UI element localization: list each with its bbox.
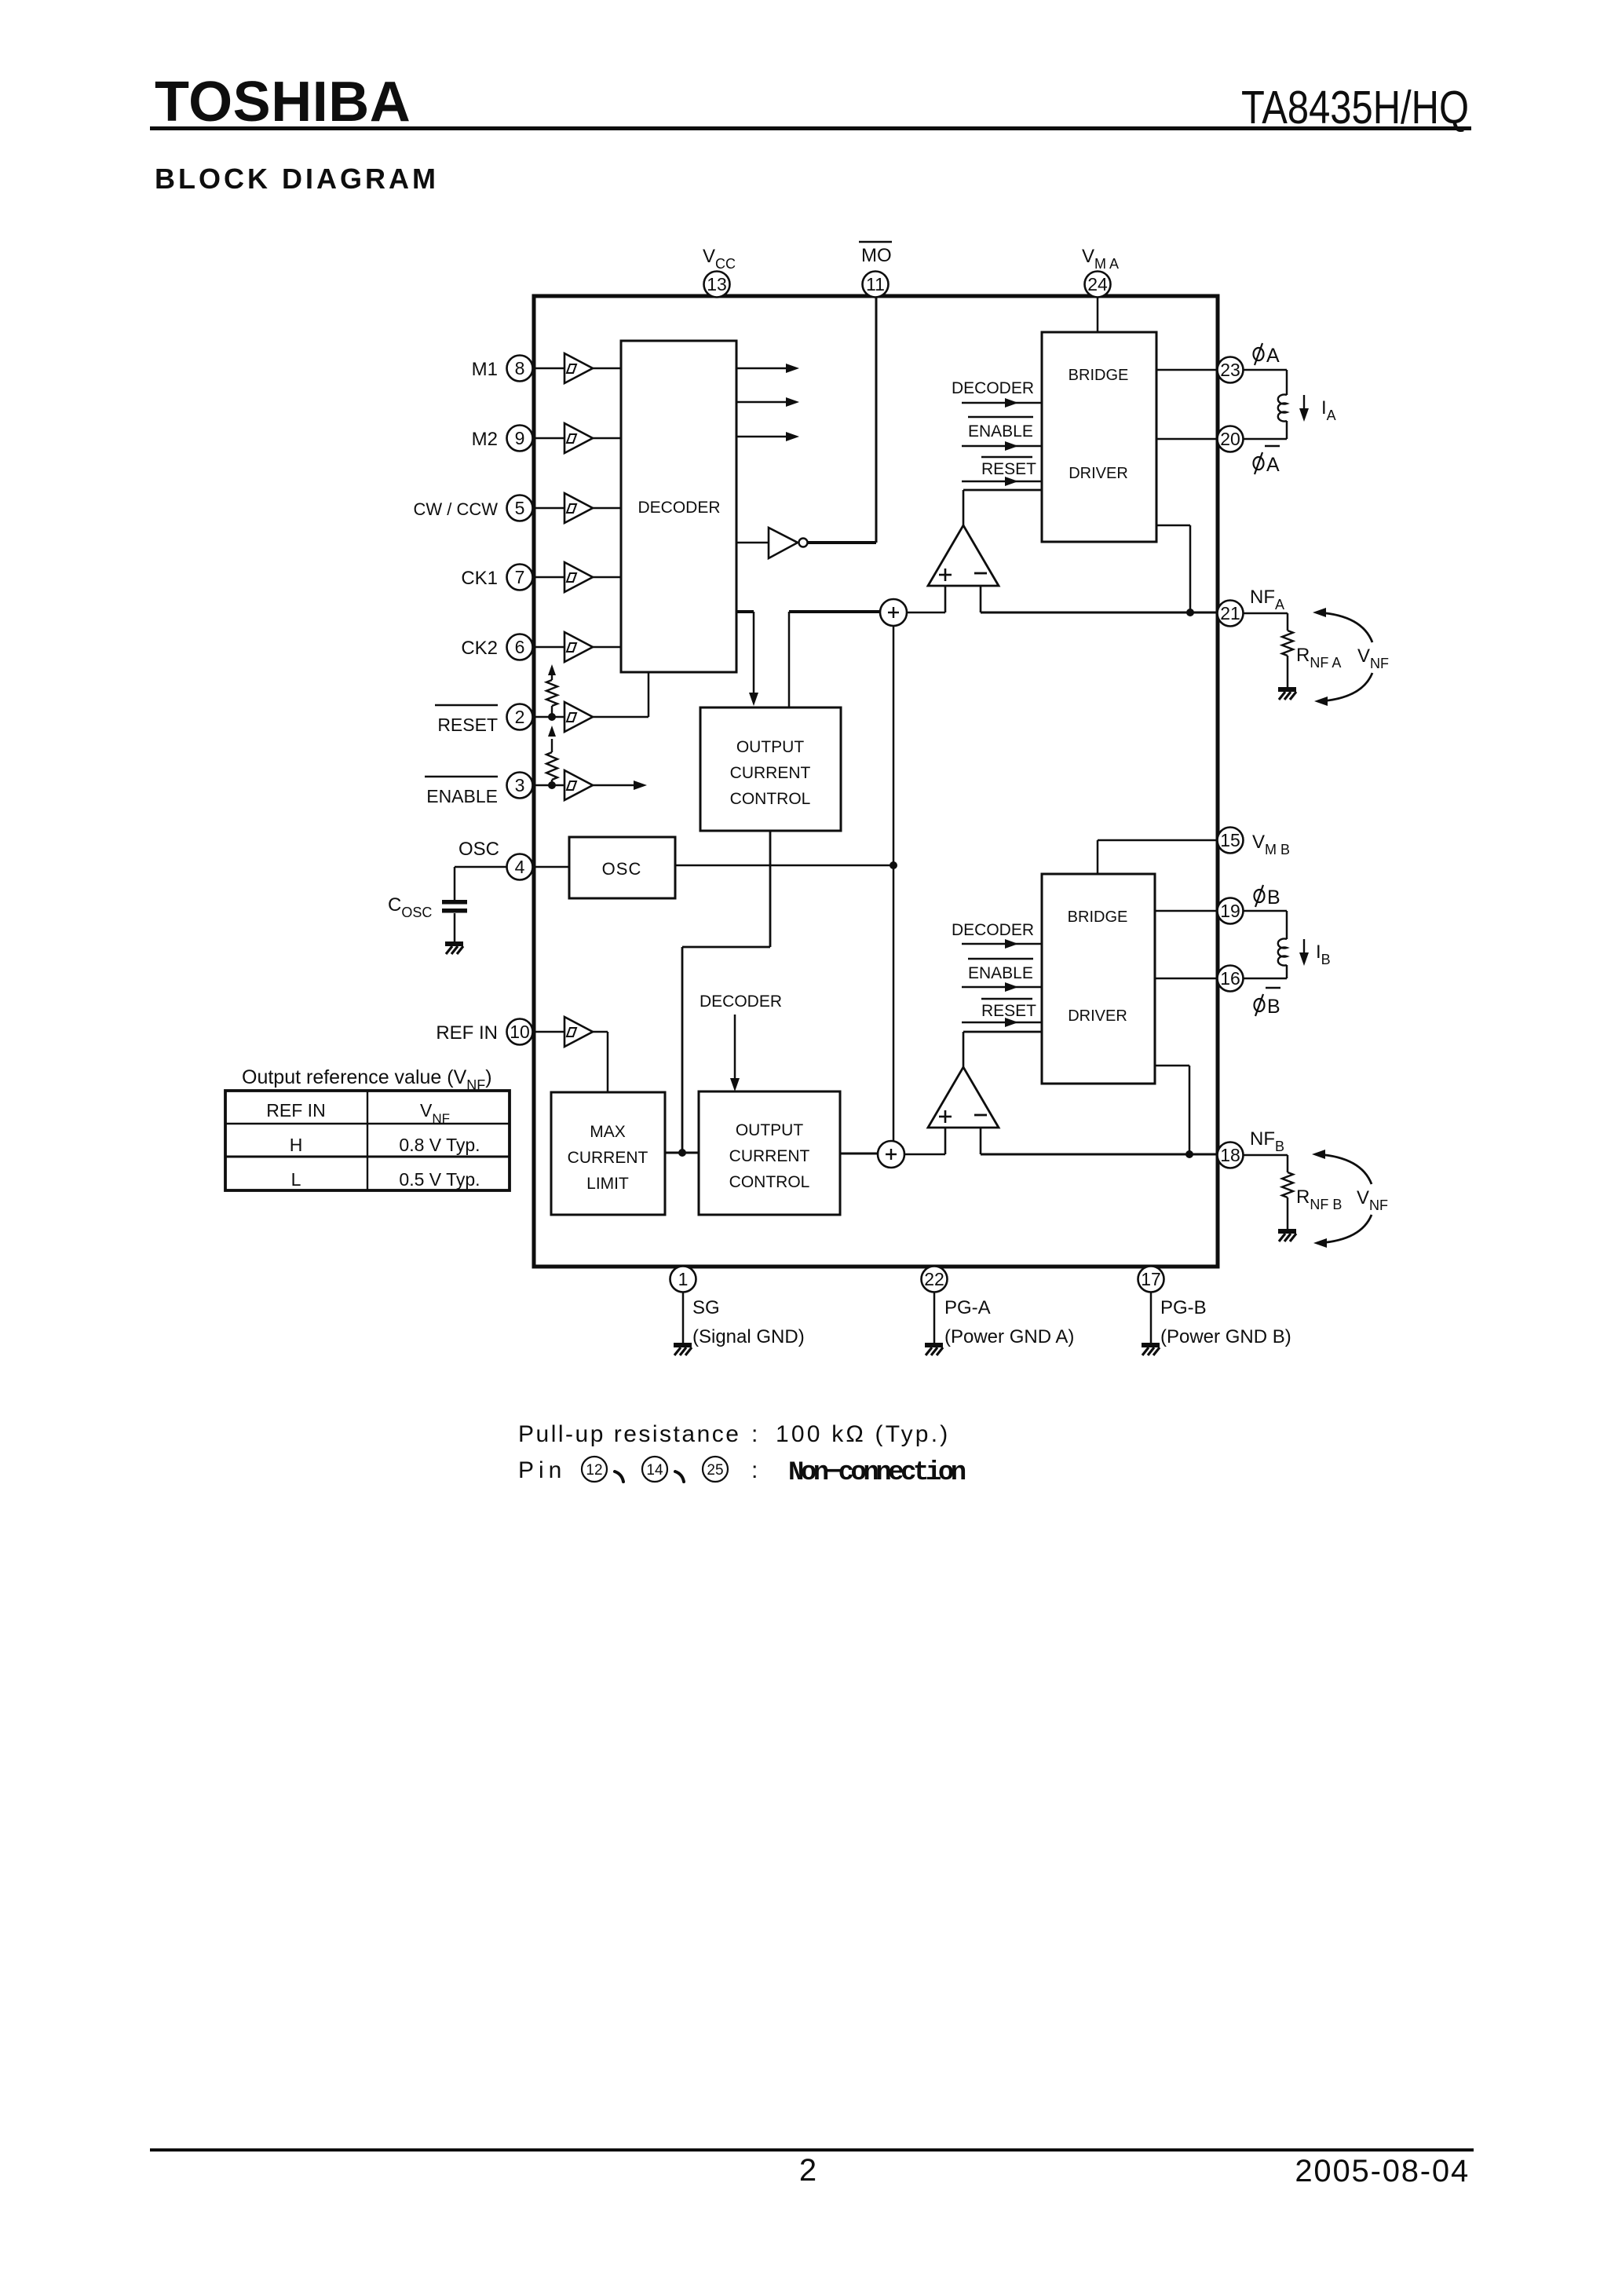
svg-text:M2: M2	[472, 429, 498, 450]
wire op-amp B - input	[980, 1128, 982, 1154]
wire summing A to summing B vertical	[893, 626, 895, 1141]
wire OCC B to summing B	[840, 1153, 878, 1155]
wire decoder to inverter	[736, 542, 769, 544]
svg-text:20: 20	[1220, 429, 1240, 449]
wire enable input B	[962, 986, 1042, 988]
svg-text:13: 13	[707, 274, 727, 294]
ground SG	[674, 1345, 692, 1355]
wire OCC A down to MCL output	[681, 947, 684, 1153]
pin 20 (phi A bar)	[1218, 426, 1244, 452]
table mid rule	[225, 1156, 510, 1158]
svg-text:0.8 V Typ.: 0.8 V Typ.	[399, 1135, 480, 1155]
arrowhead into OCC A	[749, 693, 758, 706]
svg-text:ENABLE: ENABLE	[426, 786, 498, 806]
svg-text:VNF: VNF	[1357, 645, 1389, 671]
svg-text:VM B: VM B	[1252, 832, 1290, 857]
svg-text:11: 11	[866, 274, 885, 294]
ground PG-B	[1142, 1345, 1160, 1355]
wire CK2 buffer to decoder	[593, 646, 621, 649]
svg-text:CK2: CK2	[461, 638, 498, 659]
wire MCL to OCC B	[665, 1152, 699, 1154]
svg-text:VM A: VM A	[1082, 246, 1119, 272]
svg-text:MAX: MAX	[590, 1123, 626, 1141]
pin 7 (CK1)	[507, 565, 533, 590]
wire pin 1 to ground	[682, 1292, 685, 1344]
wire to summing node A	[789, 610, 881, 613]
wire pin 19 to coil B	[1244, 910, 1287, 912]
summing node B (+)	[878, 1141, 904, 1168]
inductor motor coil A	[1278, 395, 1287, 422]
svg-text:100 kΩ (Typ.): 100 kΩ (Typ.)	[776, 1421, 950, 1447]
wire REF IN to MAX CURRENT LIMIT	[607, 1032, 609, 1092]
wire REF IN buffer output	[593, 1031, 608, 1033]
wire op-amp B + input	[944, 1128, 947, 1154]
wire M2 buffer to decoder	[593, 437, 621, 440]
buffer CK2	[564, 632, 593, 662]
svg-text:IA: IA	[1321, 397, 1336, 423]
arrow ENABLE output	[634, 781, 647, 790]
svg-text:RNF B: RNF B	[1296, 1186, 1342, 1212]
wire ENABLE pin to buffer	[533, 784, 564, 787]
svg-text:RESET: RESET	[437, 715, 498, 735]
svg-text:21: 21	[1220, 603, 1240, 623]
svg-text:0.5 V Typ.: 0.5 V Typ.	[399, 1169, 480, 1190]
pin 8 (M1)	[507, 356, 533, 382]
wire enable input A	[962, 445, 1042, 447]
pin 1 (SG)	[670, 1267, 696, 1292]
wire bridge B to VMB	[1097, 840, 1099, 874]
svg-text:18: 18	[1220, 1145, 1240, 1165]
pin 5 (CW/CCW)	[507, 495, 533, 521]
current arrow IA	[1303, 395, 1305, 411]
svg-text:(Power GND B): (Power GND B)	[1160, 1326, 1291, 1347]
svg-text:(Signal GND): (Signal GND)	[692, 1326, 805, 1347]
buffer M1	[564, 353, 593, 383]
wire VMB to pin 15	[1098, 839, 1217, 842]
svg-text:VNF: VNF	[1357, 1187, 1388, 1213]
wire driver B sense out	[1155, 1065, 1189, 1067]
wire pin4 to COSC	[455, 866, 506, 868]
resistor RNFA	[1282, 631, 1293, 656]
block MAX CURRENT LIMIT	[551, 1092, 665, 1215]
svg-text:CONTROL: CONTROL	[729, 1173, 810, 1191]
table VNF reference	[225, 1091, 510, 1190]
pin 6 (CK2)	[507, 634, 533, 660]
wire pin 21 to RNFA	[1244, 612, 1288, 615]
svg-text:OSC: OSC	[602, 859, 642, 879]
svg-text:OUTPUT: OUTPUT	[736, 1121, 804, 1139]
ground PG-A	[925, 1345, 943, 1355]
circled pin 14	[642, 1457, 667, 1482]
wire pin 17 to ground	[1150, 1292, 1153, 1344]
svg-text:L: L	[291, 1169, 301, 1190]
label RESET input A with overline	[981, 456, 1032, 458]
svg-text:RESET: RESET	[981, 460, 1036, 478]
svg-text:1: 1	[678, 1269, 689, 1289]
svg-text:6: 6	[515, 637, 525, 657]
wire M1 buffer to decoder	[593, 367, 621, 370]
svg-text:CURRENT: CURRENT	[730, 764, 811, 782]
svg-text:PG-B: PG-B	[1160, 1297, 1207, 1318]
arc VNF A	[1319, 612, 1372, 642]
label phi A bar	[1254, 452, 1264, 474]
svg-text:DRIVER: DRIVER	[1068, 1007, 1127, 1025]
table column divider	[367, 1091, 368, 1190]
wire driver B sense down	[1189, 1066, 1191, 1154]
block BRIDGE DRIVER B	[1042, 874, 1155, 1084]
circled pin 25	[703, 1457, 728, 1482]
pin 3 (ENABLE)	[507, 773, 533, 799]
svg-text:24: 24	[1087, 274, 1108, 294]
arrowhead reset input A	[1005, 477, 1018, 486]
svg-text:RESET: RESET	[981, 1002, 1036, 1020]
arrow pull-up RESET to VCC	[548, 664, 556, 675]
svg-text:19: 19	[1220, 901, 1240, 921]
svg-text:8: 8	[515, 358, 525, 378]
wire driver A sense down	[1189, 525, 1192, 612]
wire op-amp A - input	[980, 586, 982, 612]
junction OSC output	[890, 861, 897, 869]
wire decoder output y=556	[736, 436, 788, 437]
wire decoder feed B down	[734, 1015, 736, 1082]
svg-text:10: 10	[510, 1022, 530, 1042]
wire NFA line to pin 21	[981, 612, 1217, 614]
label phi B bar	[1255, 994, 1265, 1016]
svg-text:LIMIT: LIMIT	[586, 1175, 629, 1193]
wire op-amp A output to driver	[963, 489, 1042, 492]
comma 2	[675, 1472, 684, 1482]
svg-text:BRIDGE: BRIDGE	[1068, 909, 1128, 926]
wire op-amp B output to driver	[963, 1031, 1042, 1033]
svg-text:DECODER: DECODER	[700, 993, 782, 1011]
svg-text:2: 2	[515, 707, 525, 727]
pin 11 (MO)	[863, 272, 889, 298]
block BRIDGE DRIVER A	[1042, 332, 1156, 542]
svg-text:ENABLE: ENABLE	[968, 964, 1033, 982]
svg-text:B: B	[1267, 996, 1280, 1018]
block OSC	[569, 837, 675, 898]
svg-text:RNF A: RNF A	[1296, 645, 1341, 671]
wire pin 22 to ground	[933, 1292, 936, 1344]
pin 22 (PG-A)	[922, 1267, 948, 1292]
svg-text:M1: M1	[472, 359, 498, 380]
svg-text:TOSHIBA: TOSHIBA	[155, 71, 411, 133]
block OUTPUT CURRENT CONTROL A	[700, 707, 841, 831]
pin 4 (OSC)	[507, 854, 533, 880]
wire MO to pin 11	[875, 298, 878, 543]
arrowhead decoder input A	[1005, 398, 1018, 408]
wire decoder input B	[962, 943, 1042, 945]
wire decoder output y=469	[736, 367, 788, 369]
arrow pull-up ENABLE to VCC	[548, 726, 556, 737]
capacitor COSC	[442, 900, 467, 913]
svg-text:5: 5	[515, 498, 525, 518]
wire CW/CCW buffer to decoder	[593, 507, 621, 510]
buffer REF IN	[564, 1017, 593, 1047]
svg-text:9: 9	[515, 428, 525, 448]
block DECODER U1	[621, 341, 736, 672]
ground COSC	[445, 944, 463, 954]
pin 21 (NFA)	[1218, 601, 1244, 627]
pin 18 (NFB)	[1218, 1143, 1244, 1168]
svg-text:4: 4	[515, 857, 525, 877]
arrowhead reset input B	[1005, 1018, 1018, 1027]
svg-text:Pull-up resistance: Pull-up resistance	[518, 1421, 740, 1447]
svg-text::: :	[751, 1457, 758, 1483]
junction MCL/OCC-A	[678, 1149, 686, 1157]
pin 23 (phi A)	[1218, 357, 1244, 383]
svg-text:REF IN: REF IN	[436, 1022, 498, 1044]
svg-text:BRIDGE: BRIDGE	[1069, 367, 1129, 384]
pin 9 (M2)	[507, 426, 533, 452]
wire M2 pin to buffer	[533, 437, 564, 440]
svg-text:DRIVER: DRIVER	[1069, 465, 1128, 482]
svg-text:CURRENT: CURRENT	[568, 1149, 648, 1167]
wire pin 18 to RNFB	[1244, 1154, 1288, 1157]
arrowhead enable input B	[1005, 982, 1018, 992]
arrowhead decoder output	[786, 397, 799, 407]
svg-text:COSC: COSC	[388, 894, 432, 920]
wire inverter output	[808, 541, 876, 544]
wire RESET into decoder bottom	[648, 672, 650, 717]
wire COSC top	[454, 867, 456, 900]
inverter U2 (MO)	[769, 528, 808, 558]
svg-text:Non−connection: Non−connection	[788, 1458, 966, 1488]
wire pin 23 to coil A	[1244, 369, 1287, 371]
svg-text:ENABLE: ENABLE	[968, 422, 1033, 441]
svg-text:12: 12	[586, 1462, 602, 1479]
pin 10 (REF IN)	[507, 1019, 533, 1045]
svg-text:OUTPUT: OUTPUT	[736, 738, 805, 756]
svg-text:15: 15	[1220, 830, 1240, 850]
junction RESET pull-up	[548, 713, 556, 721]
wire decoder output y=512	[736, 401, 788, 403]
svg-text:CONTROL: CONTROL	[730, 790, 811, 808]
wire coil B to pin 16	[1244, 978, 1287, 980]
wire bridge B to pin 16	[1155, 978, 1217, 980]
label phi A	[1254, 343, 1264, 365]
svg-text:NFB: NFB	[1250, 1128, 1284, 1154]
buffer RESET	[564, 702, 593, 732]
wire down into OCC A	[753, 612, 755, 696]
wire decoder input A	[962, 402, 1042, 404]
junction ENABLE pull-up	[548, 781, 556, 789]
svg-text:Output reference value (VNF): Output reference value (VNF)	[242, 1066, 492, 1093]
pin 16 (phi B bar)	[1218, 966, 1244, 992]
wire bridge A to pin 23	[1156, 369, 1217, 371]
label phi B	[1255, 885, 1265, 907]
inductor motor coil B	[1278, 939, 1287, 966]
circled pin 12	[582, 1457, 607, 1482]
op-amp U4 (current sense B)	[928, 1067, 999, 1128]
svg-text:TA8435H/HQ: TA8435H/HQ	[1241, 82, 1469, 133]
ground RNFB	[1278, 1231, 1296, 1241]
wire summing A to op-amp +	[907, 612, 945, 614]
junction NFB feedback	[1185, 1150, 1193, 1158]
svg-text:NFA: NFA	[1250, 587, 1284, 612]
svg-text:PG-A: PG-A	[944, 1297, 991, 1318]
svg-text:MO: MO	[861, 245, 892, 266]
wire REF IN pin to buffer	[533, 1031, 564, 1033]
svg-text:(Power GND A): (Power GND A)	[944, 1326, 1074, 1347]
svg-text:2: 2	[799, 2153, 816, 2188]
svg-text:7: 7	[515, 567, 525, 587]
arrowhead into OCC B	[730, 1078, 740, 1091]
wire ENABLE buffer output	[593, 784, 637, 787]
svg-text:B: B	[1267, 887, 1280, 909]
svg-text:16: 16	[1220, 968, 1240, 989]
svg-text:REF IN: REF IN	[266, 1100, 325, 1121]
label RESET input B with overline	[981, 998, 1032, 1000]
svg-text:3: 3	[515, 775, 525, 795]
table header rule	[225, 1123, 510, 1124]
svg-text:IB: IB	[1316, 941, 1331, 967]
wire pin 4 to OSC block	[535, 866, 569, 868]
pin 13 (VCC)	[704, 272, 730, 298]
wire COSC bottom	[454, 913, 456, 942]
buffer CW/CCW	[564, 493, 593, 523]
svg-text:DECODER: DECODER	[952, 921, 1034, 939]
wire CK2 pin to buffer	[533, 646, 564, 649]
svg-text:H: H	[290, 1135, 303, 1155]
resistor RNFB	[1282, 1172, 1293, 1197]
resistor pull-up ENABLE	[551, 780, 553, 785]
wire CK1 pin to buffer	[533, 576, 564, 579]
svg-text:A: A	[1266, 345, 1280, 367]
op-amp U3 (current sense A)	[928, 525, 999, 586]
junction NFA feedback	[1186, 609, 1194, 616]
svg-text:A: A	[1266, 454, 1280, 476]
wire CK1 buffer to decoder	[593, 576, 621, 579]
wire bridge B to pin 19	[1155, 910, 1217, 912]
svg-text::: :	[751, 1421, 758, 1447]
svg-text:VNF: VNF	[420, 1100, 450, 1126]
svg-text:DECODER: DECODER	[952, 379, 1034, 397]
pin 2 (RESET)	[507, 704, 533, 730]
wire NFB line to pin 18	[981, 1153, 1217, 1156]
IC boundary box	[534, 296, 1218, 1267]
wire M1 pin to buffer	[533, 367, 564, 370]
wire OSC output	[675, 865, 893, 867]
comma 1	[615, 1472, 623, 1482]
buffer ENABLE	[564, 770, 593, 800]
wire summing B to op-amp +	[904, 1153, 945, 1156]
arrowhead decoder input B	[1005, 939, 1018, 949]
svg-text:CW / CCW: CW / CCW	[413, 499, 498, 519]
arrowhead enable input A	[1005, 441, 1018, 451]
wire OCC A up to summing node	[788, 612, 791, 707]
wire RESET buffer output	[593, 716, 648, 718]
label ENABLE input A with overline	[968, 416, 1033, 418]
arrowhead decoder output	[786, 432, 799, 441]
svg-text:DECODER: DECODER	[637, 499, 720, 517]
wire coil A to pin 20	[1244, 438, 1287, 441]
header rule	[150, 126, 1471, 130]
svg-text:17: 17	[1141, 1269, 1161, 1289]
wire decoder to OCC A stub	[736, 610, 754, 613]
buffer CK1	[564, 562, 593, 592]
wire driver A sense out	[1156, 525, 1190, 527]
footer rule	[150, 2148, 1474, 2152]
svg-text:OSC: OSC	[458, 839, 499, 860]
pin 24 (VMA)	[1085, 272, 1111, 298]
buffer M2	[564, 423, 593, 453]
wire CW/CCW pin to buffer	[533, 507, 564, 510]
arc VNF B	[1318, 1154, 1372, 1184]
svg-text:2005-08-04: 2005-08-04	[1295, 2154, 1470, 2188]
wire OCC A jog left	[682, 946, 770, 949]
wire OCC A down	[769, 831, 772, 947]
svg-text:25: 25	[707, 1462, 723, 1479]
pin 17 (PG-B)	[1138, 1267, 1164, 1292]
pin 15 (VMB)	[1218, 828, 1244, 854]
svg-text:VCC: VCC	[703, 246, 736, 272]
arrowhead decoder output	[786, 364, 799, 373]
wire op-amp A output up	[963, 490, 965, 525]
current arrow IB	[1303, 939, 1305, 955]
resistor pull-up RESET	[551, 706, 553, 717]
wire bridge A to pin 20	[1156, 438, 1217, 441]
label ENABLE input B with overline	[968, 958, 1033, 960]
wire reset input A	[962, 481, 1042, 482]
block OUTPUT CURRENT CONTROL B	[699, 1091, 840, 1215]
svg-text:14: 14	[646, 1462, 663, 1479]
wire VMA pin 24 to bridge A	[1097, 298, 1099, 332]
pin 19 (phi B)	[1218, 898, 1244, 924]
wire reset input B	[962, 1022, 1042, 1023]
wire RESET pin to buffer	[533, 716, 564, 718]
wire op-amp A + input	[944, 586, 947, 612]
svg-text:CURRENT: CURRENT	[729, 1147, 810, 1165]
svg-text:SG: SG	[692, 1297, 720, 1318]
svg-text:BLOCK DIAGRAM: BLOCK DIAGRAM	[155, 163, 439, 195]
summing node A (+)	[880, 599, 907, 626]
svg-text:22: 22	[924, 1269, 944, 1289]
svg-text:23: 23	[1220, 360, 1240, 380]
svg-text:CK1: CK1	[461, 568, 498, 589]
ground RNFA	[1278, 689, 1296, 700]
wire op-amp B output up	[963, 1032, 965, 1067]
svg-text:Pin: Pin	[518, 1457, 566, 1483]
